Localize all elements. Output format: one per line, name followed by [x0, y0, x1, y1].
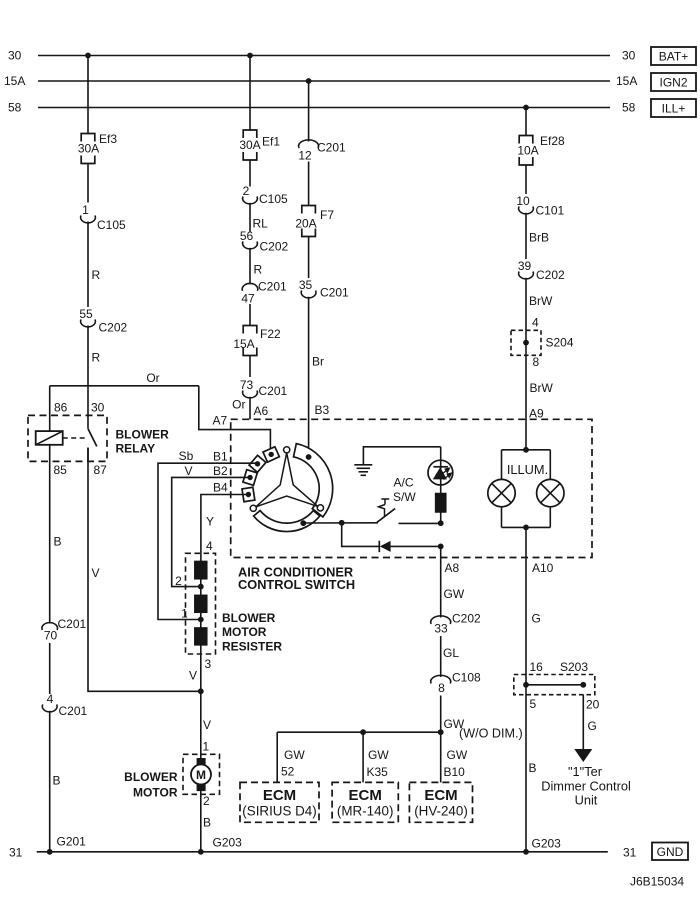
- svg-text:G203: G203: [213, 836, 243, 850]
- svg-text:B: B: [53, 774, 61, 788]
- blower relay dashed box: [28, 415, 107, 461]
- fan switch rotor tip circle lower-right: [317, 505, 323, 511]
- svg-text:2: 2: [243, 184, 250, 198]
- wire bus 31 (GND): [37, 851, 608, 853]
- fan switch contact dot pole: [300, 520, 306, 526]
- connector C201 pin 35: [301, 291, 316, 298]
- wire GW to ECM HV-240: [440, 732, 442, 782]
- node bus58-Ef28 junction: [523, 105, 529, 111]
- svg-text:R: R: [92, 351, 101, 365]
- wire F22 to C201-73: [249, 356, 251, 378]
- LED cathode bar: [433, 466, 448, 468]
- node G203 right: [523, 849, 529, 855]
- svg-text:F7: F7: [320, 208, 334, 222]
- svg-text:Or: Or: [232, 398, 245, 412]
- fan switch contact square B4: [242, 487, 255, 502]
- node diode branch: [339, 520, 345, 526]
- svg-text:C201: C201: [58, 617, 87, 631]
- wire A8 out of box: [440, 546, 442, 617]
- svg-text:BLOWER: BLOWER: [124, 770, 178, 784]
- connector C202 pin 33: [431, 616, 451, 624]
- resistor element 2 (2-1): [195, 595, 207, 612]
- node S203 splice right: [580, 682, 586, 688]
- wire GW C108 to ECM bus: [440, 696, 442, 733]
- connector C101 pin 10: [519, 207, 534, 214]
- svg-text:87: 87: [94, 463, 108, 477]
- svg-text:B10: B10: [444, 765, 466, 779]
- svg-text:G203: G203: [532, 837, 562, 851]
- svg-text:2: 2: [203, 794, 210, 808]
- resistor element 1 (4-2): [195, 561, 207, 578]
- connector C201 pin 12: [299, 140, 319, 148]
- wire GW to ECM MR-140: [362, 732, 364, 782]
- svg-text:B: B: [529, 761, 537, 775]
- svg-text:B2: B2: [213, 464, 228, 478]
- splice S203 dashed box: [514, 675, 595, 695]
- svg-text:30: 30: [8, 49, 22, 63]
- LED indicator circle: [428, 460, 453, 485]
- svg-text:C101: C101: [536, 204, 565, 218]
- svg-text:58: 58: [622, 101, 636, 115]
- connector C202 pin 55: [81, 320, 96, 327]
- wire C201-70 to C201-4: [49, 643, 51, 694]
- svg-text:33: 33: [434, 622, 448, 636]
- wire bus 30 (BAT+): [38, 55, 610, 57]
- svg-text:V: V: [203, 718, 211, 732]
- wire ground branch top: [363, 447, 440, 464]
- svg-text:S203: S203: [560, 660, 588, 674]
- fan switch rotor tip circle lower-left: [250, 505, 256, 511]
- wire B relay85 to C201-70: [49, 445, 51, 624]
- svg-text:R: R: [92, 268, 101, 282]
- svg-text:GW: GW: [444, 587, 465, 601]
- connector C201 pin 47: [242, 283, 258, 290]
- wire bus58 to fuse Ef28: [525, 108, 527, 136]
- svg-text:58: 58: [8, 101, 22, 115]
- wire GW to ECM Sirius: [276, 732, 278, 782]
- wire ILLUM bottom bar: [502, 526, 551, 528]
- svg-text:C105: C105: [97, 218, 126, 232]
- wire B C201-4 to G201: [49, 711, 51, 852]
- wire bus30 to fuse Ef3: [87, 56, 89, 134]
- svg-text:ECM: ECM: [349, 787, 382, 804]
- svg-text:BrW: BrW: [530, 381, 554, 395]
- svg-text:C105: C105: [259, 192, 288, 206]
- node ILLUM bottom: [523, 525, 529, 531]
- terminal box ILL+: [651, 99, 696, 117]
- svg-text:G201: G201: [57, 835, 87, 849]
- svg-text:Dimmer Control: Dimmer Control: [541, 779, 631, 794]
- svg-text:1: 1: [82, 203, 89, 217]
- wire V B2 branch: [172, 477, 250, 586]
- svg-text:K35: K35: [367, 765, 389, 779]
- svg-text:Sb: Sb: [179, 449, 194, 463]
- svg-text:V: V: [189, 669, 197, 683]
- svg-text:Or: Or: [146, 371, 159, 385]
- wire ILLUM right branch top: [549, 450, 551, 480]
- fan switch contact square A7: [263, 447, 279, 462]
- svg-text:ECM: ECM: [424, 787, 457, 804]
- svg-text:Ef28: Ef28: [540, 134, 565, 148]
- fan switch contact dot B3: [306, 454, 312, 460]
- node resistor tap 1: [198, 617, 204, 623]
- wire resistor internal: [200, 561, 202, 645]
- connector C202 pin 56: [243, 242, 258, 249]
- svg-text:J6B15034: J6B15034: [630, 875, 684, 889]
- wire resistor to node: [440, 512, 442, 523]
- svg-text:A7: A7: [213, 414, 228, 428]
- wire C201-47 to F22: [249, 304, 251, 326]
- svg-text:C202: C202: [452, 612, 481, 626]
- svg-text:BLOWER: BLOWER: [222, 611, 276, 625]
- node bus15A-F7 junction: [306, 78, 312, 84]
- connector C105 pin 2: [243, 197, 258, 204]
- relay coil-switch link: [63, 437, 86, 439]
- terminal box GND: [652, 843, 688, 861]
- svg-text:Ef3: Ef3: [99, 132, 117, 146]
- svg-text:16: 16: [530, 660, 544, 674]
- illumination lamp right: [537, 479, 564, 506]
- svg-text:4: 4: [532, 316, 539, 330]
- ECM (MR-140) dashed box: [332, 782, 398, 822]
- svg-text:S/W: S/W: [393, 490, 416, 504]
- svg-text:C201: C201: [258, 280, 287, 294]
- svg-text:C202: C202: [536, 268, 565, 282]
- wire R C202 to relay pin30: [87, 326, 89, 429]
- svg-text:52: 52: [281, 765, 295, 779]
- svg-text:55: 55: [79, 307, 93, 321]
- svg-text:BrW: BrW: [529, 294, 553, 308]
- wire GL: [440, 636, 442, 677]
- wire V relay87 down: [88, 448, 201, 692]
- connector C201 pin 73: [243, 391, 258, 398]
- svg-text:2: 2: [175, 574, 182, 588]
- node bus30-Ef1 junction: [247, 53, 253, 59]
- svg-text:30A: 30A: [239, 138, 260, 152]
- A/C switch plunger: [379, 499, 390, 516]
- wire R C105 to C202: [87, 222, 89, 308]
- wire ILLUM left branch top: [501, 450, 503, 480]
- svg-text:47: 47: [241, 291, 255, 305]
- wire A10 out of box: [525, 527, 527, 684]
- fuse Ef1 30A: [243, 130, 257, 160]
- wire BrW S204 to A9: [525, 343, 527, 450]
- svg-text:(SIRIUS D4): (SIRIUS D4): [242, 804, 316, 819]
- wire R C202-56 down: [249, 248, 251, 284]
- svg-text:Ef1: Ef1: [262, 135, 280, 149]
- wire Ef1 to C105 pin2: [249, 160, 251, 187]
- svg-text:V: V: [184, 464, 192, 478]
- svg-text:30: 30: [91, 401, 105, 415]
- node ECM bus HV-240: [438, 729, 444, 735]
- wire C201-12 to F7: [308, 162, 310, 206]
- svg-text:C201: C201: [317, 141, 346, 155]
- svg-text:B1: B1: [213, 450, 228, 464]
- wire B S203 to G203: [525, 685, 527, 852]
- svg-text:10A: 10A: [517, 144, 538, 158]
- svg-text:MOTOR: MOTOR: [222, 625, 267, 639]
- svg-text:5: 5: [530, 697, 537, 711]
- ECM (HV-240) dashed box: [409, 782, 472, 822]
- svg-text:20: 20: [586, 698, 600, 712]
- wire Y B4 branch: [201, 495, 249, 562]
- svg-text:R: R: [254, 263, 263, 277]
- svg-text:Br: Br: [312, 355, 324, 369]
- wire relay pin87 stub: [87, 448, 89, 462]
- svg-text:85: 85: [54, 463, 68, 477]
- wire ILLUM right branch bottom: [549, 507, 551, 528]
- wire Or to A7: [199, 386, 271, 452]
- wire BrB: [525, 213, 527, 259]
- blower motor terminal bottom: [197, 785, 205, 791]
- connector C202 pin 39: [519, 272, 534, 279]
- svg-text:A8: A8: [445, 561, 460, 575]
- terminal box BAT+: [651, 47, 696, 65]
- wire RL: [249, 203, 251, 232]
- svg-text:BrB: BrB: [529, 231, 549, 245]
- svg-text:BAT+: BAT+: [659, 50, 688, 64]
- svg-text:V: V: [92, 566, 100, 580]
- connector C201 pin 4: [42, 705, 57, 712]
- svg-text:31: 31: [623, 846, 637, 860]
- svg-text:8: 8: [533, 355, 540, 369]
- svg-text:10: 10: [516, 194, 530, 208]
- svg-text:3: 3: [205, 657, 212, 671]
- svg-text:15A: 15A: [4, 74, 25, 88]
- svg-text:12: 12: [298, 149, 312, 163]
- svg-text:A/C: A/C: [394, 476, 414, 490]
- indicator resistor (filled): [436, 494, 446, 513]
- svg-text:A10: A10: [532, 561, 554, 575]
- relay switch blade: [88, 429, 97, 447]
- blower motor dashed box: [183, 754, 220, 794]
- svg-text:ECM: ECM: [263, 787, 296, 804]
- svg-text:39: 39: [518, 259, 532, 273]
- svg-text:(HV-240): (HV-240): [414, 804, 468, 819]
- ECM (SIRIUS D4) dashed box: [240, 782, 319, 822]
- svg-text:IGN2: IGN2: [659, 76, 687, 90]
- connector C201 pin 70: [42, 623, 58, 630]
- wire F7 to C201-35: [308, 237, 310, 279]
- fuse F22 15A: [243, 326, 257, 356]
- connector C108 pin 8: [431, 675, 451, 683]
- fuse F7 20A: [302, 206, 316, 237]
- wire S203 link: [526, 684, 583, 686]
- svg-text:A6: A6: [254, 404, 269, 418]
- node G203 left: [198, 849, 204, 855]
- connector C105 pin 1: [81, 216, 96, 223]
- LED emission arrows: [442, 468, 452, 479]
- svg-text:S204: S204: [546, 336, 574, 350]
- node S203 splice left: [523, 682, 529, 688]
- A/C switch blade: [377, 509, 395, 523]
- fuse Ef28 10A: [519, 136, 533, 166]
- air conditioner control switch dashed box: [231, 419, 592, 557]
- node A/C switch output: [438, 520, 444, 526]
- fan switch bottom contact band (pole): [254, 511, 320, 532]
- wire through LED: [440, 447, 442, 494]
- svg-text:8: 8: [438, 681, 445, 695]
- wire Ef3 to C105 pin1: [87, 164, 89, 203]
- svg-text:CONTROL SWITCH: CONTROL SWITCH: [238, 577, 355, 592]
- svg-text:B: B: [54, 535, 62, 549]
- svg-text:ILLUM.: ILLUM.: [507, 462, 548, 477]
- fan switch rotor star: [256, 453, 318, 507]
- svg-text:15A: 15A: [233, 337, 254, 351]
- arrow to dimmer control unit: [574, 749, 592, 762]
- wire Br C201-35 to B3: [308, 297, 310, 457]
- svg-text:4: 4: [206, 539, 213, 553]
- wire Sb B1 branch: [158, 463, 258, 619]
- fan switch contact square B2: [243, 470, 257, 486]
- svg-text:(MR-140): (MR-140): [337, 804, 394, 819]
- svg-text:1: 1: [181, 607, 188, 621]
- svg-text:MOTOR: MOTOR: [133, 786, 178, 800]
- svg-text:86: 86: [54, 401, 68, 415]
- blower motor M1 circle: [191, 765, 211, 785]
- wire bus 15A (IGN2): [38, 80, 610, 82]
- svg-text:Y: Y: [206, 515, 214, 529]
- wire ILLUM left branch bottom: [501, 507, 503, 528]
- svg-text:RL: RL: [253, 217, 269, 231]
- wire ECM bus: [277, 731, 441, 733]
- wire bus30 to fuse Ef1: [249, 56, 251, 131]
- svg-text:M: M: [196, 768, 206, 782]
- diode (to A/C switch): [378, 541, 380, 552]
- svg-text:RELAY: RELAY: [116, 442, 156, 456]
- svg-text:B: B: [203, 816, 211, 830]
- svg-text:GW: GW: [284, 748, 305, 762]
- svg-text:31: 31: [9, 846, 23, 860]
- svg-text:RESISTER: RESISTER: [222, 640, 282, 654]
- fan switch contact square B1: [249, 455, 266, 472]
- wire relay pin86: [49, 386, 51, 431]
- svg-text:B4: B4: [213, 481, 228, 495]
- wire fan pole to A/C switch: [303, 522, 378, 524]
- svg-text:ILL+: ILL+: [662, 102, 686, 116]
- blower motor terminal top: [197, 759, 205, 765]
- svg-text:Unit: Unit: [575, 793, 598, 808]
- svg-text:C108: C108: [452, 671, 481, 685]
- svg-text:BLOWER: BLOWER: [116, 428, 170, 442]
- fuse Ef3 30A: [81, 134, 95, 164]
- fan switch right contact band (B3): [294, 444, 333, 517]
- svg-text:C202: C202: [260, 240, 289, 254]
- svg-text:4: 4: [47, 692, 54, 706]
- wire Or relay branch: [50, 385, 199, 387]
- fan switch rotor tip circle top: [284, 447, 290, 453]
- node ILLUM top: [523, 447, 529, 453]
- wire diode branch: [342, 523, 380, 546]
- svg-text:35: 35: [299, 278, 313, 292]
- svg-text:GL: GL: [443, 646, 459, 660]
- blower motor resistor dashed box: [186, 553, 216, 654]
- A/C switch throw contact: [399, 522, 441, 524]
- resistor element 3 (1-3): [195, 628, 207, 645]
- splice S204 dashed box: [511, 330, 541, 355]
- svg-text:20A: 20A: [295, 217, 316, 231]
- svg-text:30: 30: [622, 49, 636, 63]
- wire bus15A to C201-12: [308, 81, 310, 142]
- svg-text:"1"Ter: "1"Ter: [568, 764, 603, 779]
- node resistor tap 2: [198, 584, 204, 590]
- svg-text:G: G: [588, 719, 597, 733]
- wire BrW C202-39 to S204: [525, 278, 527, 343]
- svg-text:56: 56: [240, 229, 254, 243]
- svg-text:G: G: [532, 612, 541, 626]
- svg-text:30A: 30A: [78, 142, 99, 156]
- svg-text:73: 73: [240, 378, 254, 392]
- illumination lamp left: [488, 479, 515, 506]
- svg-text:C201: C201: [59, 704, 88, 718]
- svg-text:C202: C202: [99, 321, 128, 335]
- wire motor to G203: [200, 790, 202, 851]
- wire diode to A8 node: [391, 545, 441, 547]
- svg-text:(W/O DIM.): (W/O DIM.): [459, 727, 523, 741]
- svg-text:1: 1: [203, 740, 210, 754]
- node S204 splice: [523, 340, 529, 346]
- wire Or to pin A6: [249, 397, 251, 420]
- svg-text:A9: A9: [529, 407, 544, 421]
- wire G to dimmer arrow: [582, 695, 584, 749]
- wire V resistor out: [200, 645, 202, 759]
- wire Ef28 to C101-10: [525, 165, 527, 194]
- svg-text:GW: GW: [447, 748, 468, 762]
- wire bus 58 (ILL+): [38, 107, 610, 109]
- LED triangle: [433, 467, 447, 479]
- node V junction (87 join): [198, 688, 204, 694]
- svg-text:C201: C201: [320, 286, 349, 300]
- terminal box IGN2: [651, 73, 696, 91]
- wire ILLUM top bar: [502, 449, 551, 451]
- node bus30-Ef3 junction: [85, 53, 91, 59]
- svg-text:GND: GND: [657, 845, 684, 859]
- node A8: [438, 544, 444, 550]
- svg-text:GW: GW: [368, 748, 389, 762]
- ground symbol: [354, 465, 372, 476]
- node G201: [47, 849, 53, 855]
- relay coil: [36, 431, 63, 445]
- svg-text:C201: C201: [259, 384, 288, 398]
- svg-text:B3: B3: [315, 403, 330, 417]
- svg-text:F22: F22: [260, 327, 281, 341]
- svg-text:15A: 15A: [616, 74, 637, 88]
- svg-text:70: 70: [44, 629, 58, 643]
- node ECM bus MR-140: [360, 729, 366, 735]
